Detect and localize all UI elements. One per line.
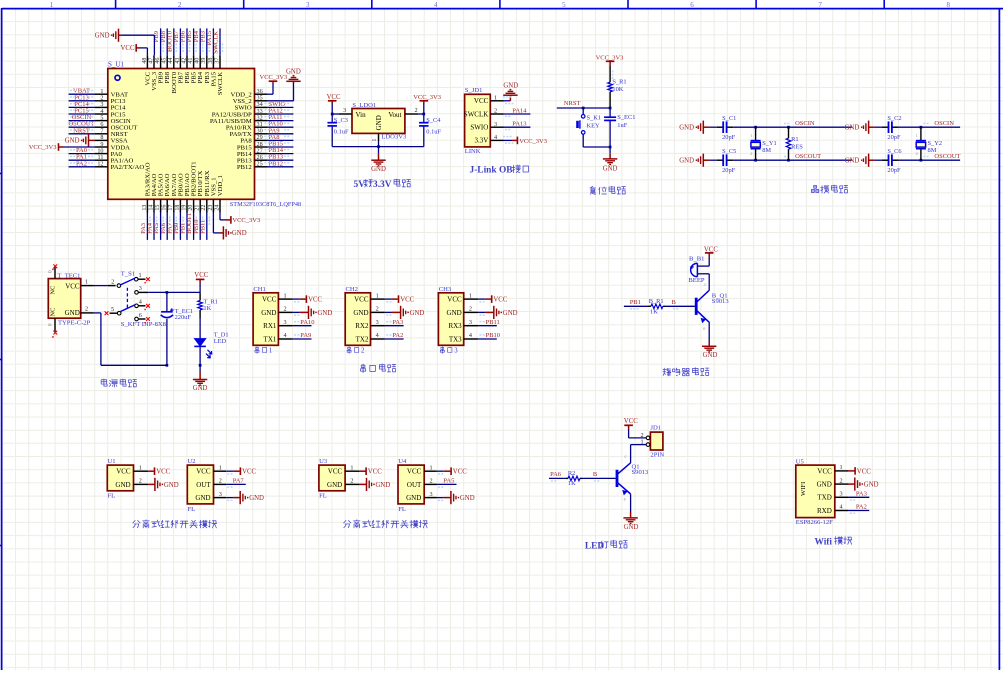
svg-text:1: 1 xyxy=(85,278,88,285)
svg-text:4: 4 xyxy=(284,332,287,339)
svg-text:J-Link OB: J-Link OB xyxy=(470,166,513,176)
svg-text:U5: U5 xyxy=(796,458,805,465)
wire switch pin3 to vcc rail xyxy=(148,291,200,293)
svg-text:1K: 1K xyxy=(203,305,211,312)
mcu pin 46 PB9 xyxy=(160,55,162,68)
svg-text:NC: NC xyxy=(50,308,57,317)
svg-text:GND: GND xyxy=(193,385,208,392)
svg-text:23: 23 xyxy=(208,205,214,211)
wire net PA11 xyxy=(268,120,294,122)
wire net PA7 xyxy=(226,483,246,485)
wire net B to base q1 xyxy=(582,477,616,479)
resistor T_R1 1K xyxy=(199,292,201,300)
wire net PA5 xyxy=(160,213,162,240)
svg-text:GND: GND xyxy=(603,166,618,173)
svg-text:GND: GND xyxy=(318,310,333,317)
CH3 pin 3 RX3 xyxy=(464,325,478,327)
module U2 body xyxy=(187,465,213,504)
svg-text:GND: GND xyxy=(353,309,368,317)
svg-text:17: 17 xyxy=(168,205,174,211)
power port VCC CH2 xyxy=(385,298,392,300)
mcu pin 1 VBAT xyxy=(95,93,108,95)
svg-text:13: 13 xyxy=(142,205,148,211)
wire net PB12 xyxy=(268,166,294,168)
U3 pin 2 GND xyxy=(345,483,360,485)
power port GND for S_C2 xyxy=(868,121,870,134)
mcu pin 23 VSS_1 xyxy=(212,199,214,212)
svg-text:FL: FL xyxy=(108,493,116,500)
wire net PB0 xyxy=(179,213,181,240)
svg-text:GND: GND xyxy=(375,115,383,130)
svg-text:5V: 5V xyxy=(354,180,366,190)
CH2 pin 4 TX2 xyxy=(371,338,385,340)
wire net PB4 xyxy=(199,28,201,55)
wire net PC14 xyxy=(69,106,95,108)
svg-text:PA2: PA2 xyxy=(76,160,87,167)
ldo S_LDO1 body xyxy=(352,109,405,134)
mcu pin 20 PB2/BOOT1 xyxy=(193,199,195,212)
svg-text:3: 3 xyxy=(343,107,346,114)
power port GND for S_C6 xyxy=(868,154,870,167)
svg-text:OSCOUT: OSCOUT xyxy=(934,153,960,160)
mcu pin 34 SWIO xyxy=(255,106,268,108)
svg-text:PB12: PB12 xyxy=(269,160,283,167)
svg-text:2: 2 xyxy=(415,107,418,114)
svg-text:20: 20 xyxy=(188,205,194,211)
junction resistor bottom xyxy=(787,159,790,162)
power port GND U1 xyxy=(148,483,155,485)
U1 pin 2 GND xyxy=(134,483,149,485)
svg-text:2: 2 xyxy=(85,306,88,313)
switch blade 2-1 xyxy=(120,278,134,285)
jlink pin 4 3.3V xyxy=(490,139,503,141)
svg-text:1: 1 xyxy=(750,133,752,138)
led T_D1 xyxy=(199,318,201,339)
svg-text:25: 25 xyxy=(257,161,263,168)
svg-text:12: 12 xyxy=(97,161,103,168)
svg-text:0: 0 xyxy=(48,323,54,326)
power port GND buzzer xyxy=(708,341,710,346)
svg-text:S_C2: S_C2 xyxy=(887,115,901,122)
svg-text:20pF: 20pF xyxy=(887,134,901,141)
mcu pin 29 PA8 xyxy=(255,139,268,141)
wire net B to base xyxy=(666,305,695,307)
svg-text:47: 47 xyxy=(148,58,154,64)
svg-text:OUT: OUT xyxy=(196,481,211,489)
wire net PA9 xyxy=(293,338,312,340)
svg-text:38: 38 xyxy=(208,58,214,64)
svg-text:R2: R2 xyxy=(568,470,575,477)
mcu pin 6 OSCOUT xyxy=(95,126,108,128)
svg-text:3: 3 xyxy=(469,319,472,326)
wire net PA6 to base resistor xyxy=(549,477,566,479)
svg-text:6: 6 xyxy=(690,1,694,9)
junction at vout/cap node xyxy=(422,113,425,116)
power port GND CH3 xyxy=(478,311,485,313)
mcu pin 43 PB7 xyxy=(179,55,181,68)
mcu pin 17 PA7/AO xyxy=(173,199,175,212)
wire net PB10 xyxy=(199,213,201,240)
svg-text:2: 2 xyxy=(350,478,353,485)
mcu pin 5 OSCIN xyxy=(95,120,108,122)
svg-text:Vin: Vin xyxy=(356,111,367,119)
svg-text:OSCIN: OSCIN xyxy=(934,120,954,127)
svg-text:VCC: VCC xyxy=(65,283,80,291)
svg-text:LINK: LINK xyxy=(465,148,481,155)
svg-text:Wifi: Wifi xyxy=(815,537,833,547)
svg-text:2: 2 xyxy=(361,348,365,355)
wire net PB6 xyxy=(186,28,188,55)
wire net PA6 xyxy=(166,213,168,240)
switch pin 1 xyxy=(134,277,138,281)
svg-text:S_C4: S_C4 xyxy=(426,117,441,124)
svg-text:FL: FL xyxy=(188,506,196,513)
typec NC pin top xyxy=(54,266,56,279)
svg-text:S_R1: S_R1 xyxy=(612,78,626,85)
U4 pin 1 VCC xyxy=(424,470,437,472)
svg-text:S_C1: S_C1 xyxy=(722,115,736,122)
switch pin 3 xyxy=(135,291,139,295)
CH3 pin 1 VCC xyxy=(464,298,478,300)
wire vcc to jd1 pin2 xyxy=(629,437,647,439)
mcu pin 48 VCC xyxy=(146,55,148,68)
wire net PA15 xyxy=(212,28,214,55)
svg-text:S_U1: S_U1 xyxy=(108,61,124,69)
wire net PA0 xyxy=(69,153,95,155)
svg-text:B: B xyxy=(593,471,598,478)
mcu pin 10 PA0 xyxy=(95,153,108,155)
svg-text:220uF: 220uF xyxy=(175,314,192,321)
svg-text:OSCIN: OSCIN xyxy=(795,120,815,127)
svg-text:GND: GND xyxy=(261,309,276,317)
wire net PA10 xyxy=(268,126,294,128)
CH1 pin 3 RX1 xyxy=(278,325,292,327)
capacitor S_C2 20pF xyxy=(875,126,882,128)
mcu pin 44 BOOT0 xyxy=(173,55,175,68)
caption crystal circuit xyxy=(811,185,818,192)
typec NC pin bottom xyxy=(54,318,56,331)
svg-text:GND: GND xyxy=(195,494,210,502)
svg-text:S9013: S9013 xyxy=(712,298,730,305)
power port VCC U2 xyxy=(226,470,233,472)
svg-text:U1: U1 xyxy=(108,458,116,465)
caption IR switch module right xyxy=(344,521,351,528)
svg-text:20pF: 20pF xyxy=(887,167,901,174)
svg-text:GND: GND xyxy=(376,482,391,489)
svg-text:SWCLK: SWCLK xyxy=(464,110,489,118)
svg-text:GND: GND xyxy=(115,481,130,489)
mcu pin 40 PB4 xyxy=(199,55,201,68)
svg-text:3: 3 xyxy=(284,319,287,326)
svg-text:BEEP: BEEP xyxy=(688,277,704,284)
power port VCC_3V3 at jlink pin4 xyxy=(504,139,512,141)
svg-text:1: 1 xyxy=(350,464,353,471)
svg-text:PA2: PA2 xyxy=(856,504,867,511)
wire net PA3 xyxy=(146,213,148,240)
svg-text:B_R1: B_R1 xyxy=(649,298,664,305)
typec T_TEC1 body xyxy=(48,279,80,319)
mcu pin 13 PA3/RX/AO xyxy=(146,199,148,212)
wire net PA2 xyxy=(385,338,404,340)
svg-text:VCC_3V3: VCC_3V3 xyxy=(413,94,441,101)
buzzer B_B1 BEEP xyxy=(697,265,709,267)
svg-text:2: 2 xyxy=(429,478,432,485)
wire net PA2 xyxy=(69,166,95,168)
wire net PB9 xyxy=(160,28,162,55)
svg-text:VCC: VCC xyxy=(121,45,135,52)
svg-text:R1: R1 xyxy=(791,136,798,143)
svg-text:SWIO: SWIO xyxy=(470,124,488,132)
svg-text:22: 22 xyxy=(201,205,207,211)
svg-text:KEY: KEY xyxy=(587,123,601,130)
svg-text:1K: 1K xyxy=(568,480,576,487)
svg-text:3: 3 xyxy=(494,121,497,128)
wire net PA13 xyxy=(504,126,531,128)
svg-text:U2: U2 xyxy=(188,458,196,465)
power port GND to mcu pin47 xyxy=(153,35,155,55)
U4 pin 2 OUT xyxy=(424,483,437,485)
svg-text:GND: GND xyxy=(406,494,421,502)
svg-text:VCC: VCC xyxy=(116,468,131,476)
power port GND reset xyxy=(609,147,611,153)
svg-text:ESP8266-12F: ESP8266-12F xyxy=(796,519,833,526)
capacitor S_C1 20pF xyxy=(709,126,716,128)
header CH3 body xyxy=(438,293,463,346)
mcu pin 24 VDD_1 xyxy=(219,199,221,212)
svg-text:VCC: VCC xyxy=(857,468,871,475)
svg-text:3.3V: 3.3V xyxy=(474,137,488,145)
mcu U1 pin-1 dot marker xyxy=(115,75,120,80)
capacitor S_C3 0.1uF xyxy=(331,114,333,123)
switch blade 5-4 xyxy=(121,305,135,312)
svg-text:NRST: NRST xyxy=(564,100,581,107)
sheet border frame xyxy=(2,8,1003,10)
svg-text:GND: GND xyxy=(249,495,264,502)
svg-text:S_K1: S_K1 xyxy=(587,115,602,122)
wire jd1 pin1 to collector xyxy=(631,444,647,446)
svg-text:RES: RES xyxy=(791,144,803,151)
U2 pin 3 GND xyxy=(214,497,227,499)
svg-text:16: 16 xyxy=(162,205,168,211)
svg-text:CH3: CH3 xyxy=(439,286,452,293)
resistor B_R1 1K xyxy=(648,305,651,307)
svg-text:1: 1 xyxy=(839,464,842,471)
wire net NRST xyxy=(69,133,95,135)
capacitor S_EC1 1uF xyxy=(609,108,611,117)
wire net PC13 xyxy=(69,100,95,102)
wire buzzer pin2 down to collector xyxy=(708,274,710,291)
wire net PA14 xyxy=(504,113,531,115)
svg-text:GND: GND xyxy=(460,495,475,502)
svg-text:B_B1: B_B1 xyxy=(689,255,704,262)
jlink pin 2 SWCLK xyxy=(490,113,503,115)
svg-text:VCC_3V3: VCC_3V3 xyxy=(29,144,57,151)
svg-text:2: 2 xyxy=(839,477,842,484)
svg-text:U3: U3 xyxy=(319,458,328,465)
wire emitter down xyxy=(708,322,710,341)
svg-text:10K: 10K xyxy=(612,86,623,93)
svg-text:TX2: TX2 xyxy=(356,335,369,343)
svg-text:GND: GND xyxy=(864,482,879,489)
mcu pin 4 PC15 xyxy=(95,113,108,115)
connector JD1 2PIN body xyxy=(650,432,663,450)
svg-text:PA3: PA3 xyxy=(856,491,867,498)
power port GND at VSS_2 pin35 xyxy=(268,100,294,102)
jlink pin 3 SWIO xyxy=(490,126,503,128)
mcu pin 12 PA2/TX/AO xyxy=(95,166,108,168)
svg-text:VCC: VCC xyxy=(407,468,422,476)
svg-text:T_TEC1: T_TEC1 xyxy=(57,272,80,279)
svg-text:U4: U4 xyxy=(398,458,407,465)
wire net PB1 xyxy=(186,213,188,240)
header CH1 body xyxy=(253,293,278,346)
svg-text:RX1: RX1 xyxy=(263,322,277,330)
mcu pin 41 PB5 xyxy=(193,55,195,68)
wire net PA3 wifi xyxy=(848,496,869,498)
junction crystal top xyxy=(754,126,757,129)
power port GND below ldo xyxy=(378,147,380,154)
jd1 pin 2 xyxy=(646,436,650,440)
resistor R2 1K xyxy=(566,477,568,479)
svg-text:4: 4 xyxy=(469,332,472,339)
svg-text:1: 1 xyxy=(376,292,379,299)
svg-text:39: 39 xyxy=(201,58,207,64)
svg-text:4: 4 xyxy=(376,332,379,339)
svg-text:GND: GND xyxy=(65,138,80,145)
svg-text:S_C6: S_C6 xyxy=(887,148,901,155)
caption serial circuit xyxy=(361,364,366,373)
svg-text:S_C3: S_C3 xyxy=(334,117,348,124)
junction crystal bottom xyxy=(754,159,757,162)
caption buzzer circuit xyxy=(663,368,671,376)
svg-text:2: 2 xyxy=(915,151,917,156)
svg-text:VCC: VCC xyxy=(817,467,832,475)
resistor S_R1 10K xyxy=(609,66,611,82)
svg-text:2: 2 xyxy=(139,478,142,485)
mcu pin 35 VSS_2 xyxy=(255,100,268,102)
CH3 pin 4 TX3 xyxy=(464,338,478,340)
svg-text:1: 1 xyxy=(50,1,54,9)
svg-text:1: 1 xyxy=(139,272,142,279)
svg-text:LED: LED xyxy=(214,338,227,345)
CH2 pin 1 VCC xyxy=(371,298,385,300)
power port VCC U1 xyxy=(148,470,154,472)
svg-text:8M: 8M xyxy=(762,147,771,154)
U1 pin 1 VCC xyxy=(134,470,149,472)
mcu pin 19 PB1/AO xyxy=(186,199,188,212)
power port GND CH1 xyxy=(293,311,300,313)
svg-text:4: 4 xyxy=(839,504,842,511)
svg-text:VCC: VCC xyxy=(493,297,507,304)
push button S_K1 KEY xyxy=(582,108,584,114)
svg-text:VCC: VCC xyxy=(328,468,343,476)
power port GND U4 xyxy=(437,497,444,499)
svg-text:TX3: TX3 xyxy=(449,335,462,343)
svg-text:2: 2 xyxy=(219,478,222,485)
svg-text:3: 3 xyxy=(139,285,142,292)
svg-text:GND: GND xyxy=(679,158,694,165)
svg-text:44: 44 xyxy=(168,58,174,64)
svg-text:46: 46 xyxy=(155,58,161,64)
wire emitter down to gnd xyxy=(630,494,632,511)
svg-text:PA14: PA14 xyxy=(512,107,527,114)
svg-text:21: 21 xyxy=(195,205,201,211)
svg-text:4: 4 xyxy=(434,1,438,9)
svg-text:2: 2 xyxy=(750,151,752,156)
svg-text:3: 3 xyxy=(839,491,842,498)
ldo pin 1 GND bottom xyxy=(378,133,380,141)
mcu pin 18 PB0/AO xyxy=(179,199,181,212)
jlink S_JD1 body xyxy=(465,94,491,147)
power port VCC U4 xyxy=(437,470,444,472)
svg-text:T_S1: T_S1 xyxy=(121,270,135,277)
svg-text:20pF: 20pF xyxy=(722,167,736,174)
junction resistor top xyxy=(787,126,790,129)
capacitor S_C6 20pF xyxy=(875,159,882,161)
svg-text:8: 8 xyxy=(946,1,950,9)
svg-text:S_KFT DIP-8X8: S_KFT DIP-8X8 xyxy=(121,321,167,328)
svg-text:PA2/TX/AO: PA2/TX/AO xyxy=(111,164,145,171)
power port VCC_3V3 at VDD_2 pin36 xyxy=(268,93,273,95)
svg-text:S_EC1: S_EC1 xyxy=(617,114,635,121)
mcu pin 7 NRST xyxy=(95,133,108,135)
svg-text:VCC_3V3: VCC_3V3 xyxy=(232,217,260,224)
capacitor S_C5 20pF xyxy=(709,159,716,161)
wire net PA4 xyxy=(153,213,155,240)
svg-text:RX2: RX2 xyxy=(355,322,369,330)
mcu pin 37 SWCLK xyxy=(219,55,221,68)
svg-text:PB10: PB10 xyxy=(486,332,500,339)
svg-text:SWCLK: SWCLK xyxy=(213,31,220,54)
crystal S_Y2 8M xyxy=(920,127,922,140)
mcu pin 21 PB10/TX xyxy=(199,199,201,212)
svg-text:1: 1 xyxy=(429,464,432,471)
wire net BOOT0 xyxy=(173,28,175,55)
svg-text:VCC: VCC xyxy=(368,469,382,476)
header comment serial 1 xyxy=(255,347,259,354)
CH1 pin 1 VCC xyxy=(278,298,292,300)
mcu pin 14 PA4/AO xyxy=(153,199,155,212)
module U1 body xyxy=(107,465,133,491)
wifi U5 body xyxy=(796,465,835,517)
svg-text:VCC: VCC xyxy=(327,94,341,101)
svg-text:VCC: VCC xyxy=(400,297,414,304)
svg-text:NRST: NRST xyxy=(73,127,90,134)
power port GND at jlink pin1 xyxy=(504,100,511,102)
svg-text:GND: GND xyxy=(410,310,425,317)
mcu pin 31 PA10/RX xyxy=(255,126,268,128)
mcu pin 27 PB14 xyxy=(255,153,268,155)
svg-text:2PIN: 2PIN xyxy=(650,451,664,458)
mcu pin 25 PB12 xyxy=(255,166,268,168)
wire net PA12 xyxy=(268,113,294,115)
svg-text:2: 2 xyxy=(376,306,379,313)
svg-text:14: 14 xyxy=(148,205,154,211)
header comment serial 2 xyxy=(347,347,351,354)
svg-text:PB1: PB1 xyxy=(630,299,641,306)
svg-text:VCC: VCC xyxy=(624,418,638,425)
power port GND U2 xyxy=(226,497,233,499)
svg-text:PA5: PA5 xyxy=(443,477,454,484)
svg-text:1: 1 xyxy=(494,94,497,101)
U3 pin 1 VCC xyxy=(345,470,360,472)
wire typec vcc to switch xyxy=(94,285,108,287)
svg-text:5: 5 xyxy=(562,1,566,9)
caption IR switch module left xyxy=(133,521,140,528)
svg-text:1: 1 xyxy=(219,464,222,471)
wifi pin 3 TXD xyxy=(835,496,848,498)
power port VCC_3V3 at VDDA pin9 xyxy=(58,143,60,151)
